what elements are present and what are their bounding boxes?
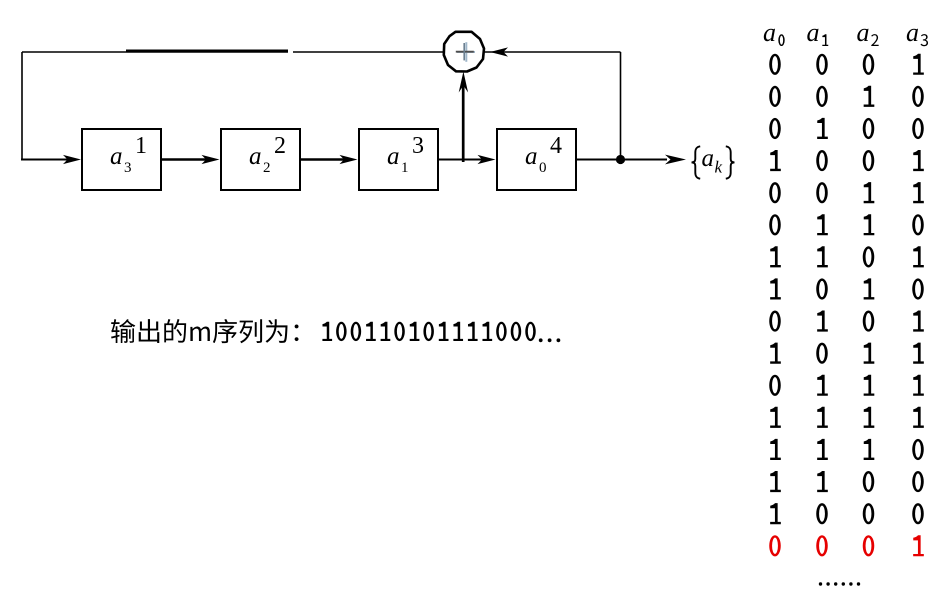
table row 14: 1 1 0 0	[770, 471, 924, 492]
wire: a0 output to sequence arrow	[575, 155, 686, 165]
svg-text:4: 4	[550, 133, 562, 159]
svg-text:a: a	[387, 143, 400, 170]
register a1 (stage 3)	[359, 129, 438, 190]
table row 12: 1 1 1 1	[770, 407, 924, 428]
node: output junction dot	[616, 155, 625, 164]
table row 13: 1 1 1 0	[770, 439, 924, 460]
wire: feedback top horizontal from adder output to left	[22, 51, 444, 52]
table ellipsis ......	[819, 582, 860, 585]
label: output m-sequence sentence	[111, 319, 560, 343]
wire: a3 to a2 with arrowhead	[161, 155, 220, 164]
label: output sequence {a_k}	[692, 145, 735, 179]
table row 1: 0 0 0 1	[769, 54, 924, 75]
svg-text:3: 3	[412, 133, 424, 159]
table row 6: 0 1 1 0	[769, 214, 924, 235]
svg-text:a: a	[807, 18, 820, 47]
svg-text:1: 1	[401, 160, 409, 176]
svg-text:a: a	[525, 143, 538, 170]
svg-text:a: a	[906, 18, 919, 47]
wire: a1 to a0 with arrowhead	[438, 155, 496, 164]
table row 9: 0 1 0 1	[769, 310, 924, 331]
table row 5: 0 0 1 1	[769, 182, 924, 203]
wire: feedback right vertical	[620, 52, 622, 160]
table row 4: 1 0 0 1	[770, 150, 924, 171]
wire: tap from a1/a0 node up into adder with arrowhead	[459, 72, 468, 163]
table row 3: 0 1 0 0	[769, 118, 924, 139]
svg-text:2: 2	[263, 160, 271, 176]
table row 7: 1 1 0 1	[770, 246, 924, 267]
register a3 (stage 1)	[82, 129, 161, 190]
table row 16: 0 0 0 1 (red)	[769, 535, 924, 556]
wire: feedback left vertical	[21, 52, 23, 160]
svg-text:1: 1	[135, 133, 147, 159]
svg-text:a: a	[249, 143, 262, 170]
svg-text:2: 2	[274, 133, 286, 159]
adder (modulo-2 sum)	[444, 32, 484, 72]
table header a0 a1 a2 a3	[763, 18, 928, 47]
table row 10: 1 0 1 1	[770, 343, 924, 364]
wire: a2 to a1 with arrowhead	[300, 155, 358, 164]
svg-text:a: a	[110, 143, 123, 170]
register a0 (stage 4)	[497, 129, 576, 190]
wire: feedback from output node into adder right side with arrowhead	[484, 47, 621, 56]
table row 11: 0 1 1 1	[769, 375, 924, 396]
table row 2: 0 0 1 0	[769, 86, 924, 107]
register a2 (stage 2)	[221, 129, 300, 190]
svg-text:3: 3	[124, 160, 132, 176]
svg-text:a: a	[702, 145, 715, 172]
table row 8: 1 0 1 0	[770, 278, 924, 299]
wire: input into register a3 with arrowhead	[21, 155, 81, 164]
table row 15: 1 0 0 0	[770, 503, 924, 524]
svg-text:0: 0	[539, 160, 547, 176]
svg-text:a: a	[763, 18, 776, 47]
svg-text:k: k	[715, 158, 723, 177]
svg-text:a: a	[857, 18, 870, 47]
